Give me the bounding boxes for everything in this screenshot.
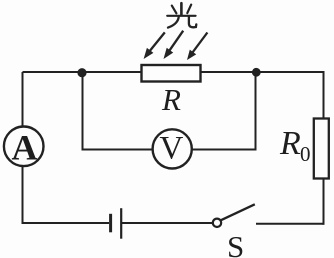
voltmeter V1 circle (153, 129, 192, 168)
wire voltmeter branch left (83, 74, 154, 150)
svg-text:A: A (12, 128, 38, 168)
wire left vertical lower (22, 166, 24, 223)
svg-text:V: V (160, 131, 184, 167)
light label 光 (167, 3, 196, 27)
battery cell positive plate (120, 208, 122, 239)
wire battery to switch (122, 222, 213, 224)
wire right vertical upper (323, 71, 325, 119)
light arrow 3 (187, 33, 207, 61)
svg-text:S: S (227, 229, 244, 258)
light arrow 2 (164, 31, 184, 59)
switch lever (221, 204, 255, 220)
wire right vertical lower (323, 179, 325, 225)
wire top (23, 71, 324, 73)
ammeter A1 circle (4, 127, 44, 167)
svg-text:R: R (279, 125, 301, 162)
resistor R0 body (314, 119, 329, 179)
wire left vertical upper (22, 72, 24, 127)
wire bottom left (22, 222, 110, 224)
svg-text:R: R (161, 82, 181, 117)
node junction right (252, 68, 261, 77)
resistor R (photoresistor) body (142, 65, 201, 82)
svg-text:0: 0 (300, 142, 311, 166)
switch S pivot circle (213, 219, 221, 227)
node junction left (77, 68, 86, 77)
battery cell negative plate (109, 214, 112, 233)
light arrow 1 (144, 32, 165, 59)
wire switch to bottom right corner (256, 223, 324, 225)
wire voltmeter branch right (192, 74, 256, 150)
